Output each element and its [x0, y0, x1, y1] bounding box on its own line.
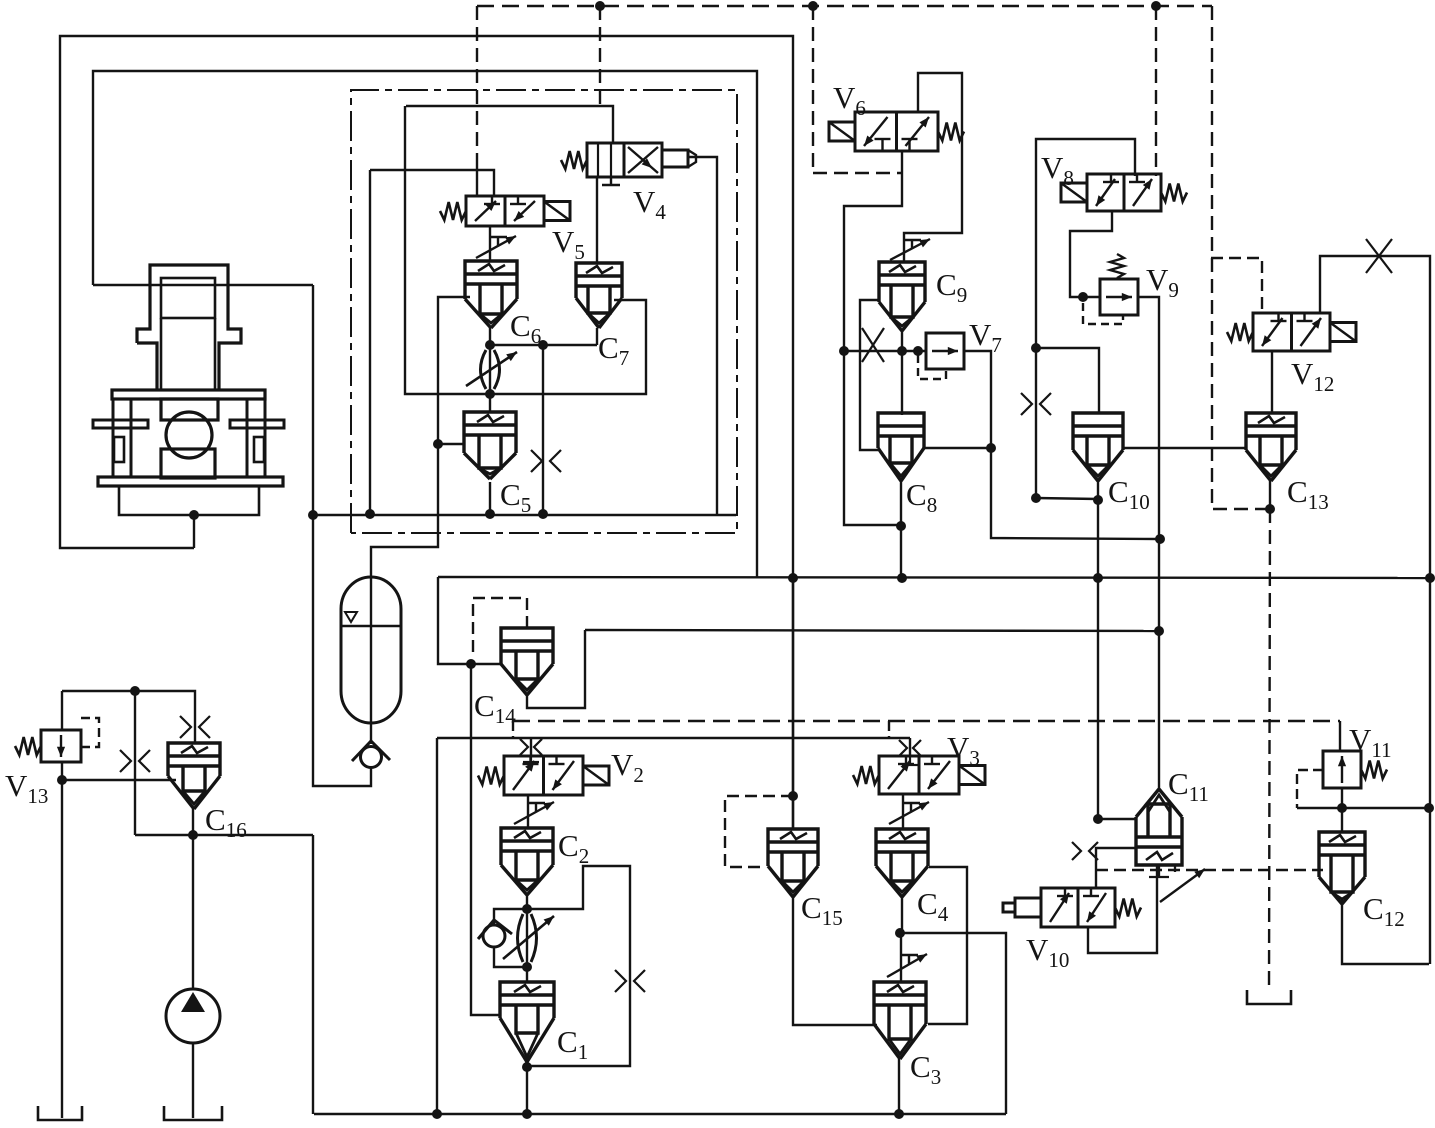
throttle above V2: [520, 739, 528, 755]
junction bus C3: [894, 1109, 904, 1119]
throttle X on y351: [862, 328, 884, 362]
pilot adjust V5-C6: [489, 236, 507, 238]
wire V2 to C2: [527, 795, 529, 828]
wire V9 out: [1138, 297, 1159, 789]
pilot arrow C11: [1160, 869, 1205, 902]
wire V11 top: [1339, 721, 1341, 751]
wire C9 left loop: [860, 300, 880, 450]
wire V8 pilot loop: [1036, 139, 1135, 348]
dashed pilot C15: [725, 796, 793, 867]
dashed pilot into V6 bottom: [813, 172, 902, 174]
cartridge C1: [500, 982, 554, 1018]
wire C14 dot down to C1: [471, 664, 500, 1015]
pilot T-bar V2: [523, 761, 539, 763]
wire V4 to C7: [596, 177, 598, 263]
junction bus at C10 line: [1093, 573, 1103, 583]
wire C6-C7 tie: [490, 344, 597, 346]
junction press base: [189, 510, 199, 520]
wire C9 tip down: [901, 331, 903, 351]
wire V8 bottom: [1070, 211, 1112, 297]
wire V2 top tick: [530, 738, 532, 756]
wire C10 tip down: [1097, 481, 1099, 819]
wire V3 top drop: [909, 738, 911, 757]
pilot adjust V3-C4: [902, 802, 920, 804]
throttle above C16: [180, 716, 191, 738]
dashed pilot right leg: [1212, 6, 1270, 509]
junction bus at right border: [1425, 573, 1435, 583]
dashed stub V2: [512, 721, 514, 738]
junction C1 tip: [522, 1062, 532, 1072]
dashed pilot V13: [81, 718, 99, 747]
pilot adjust C9: [903, 239, 921, 241]
wire C6 left loop: [438, 297, 470, 444]
wire press base stub: [193, 515, 195, 548]
cartridge C12: [1319, 832, 1365, 877]
wire C15 feed: [792, 578, 794, 829]
dashed bus y721: [513, 720, 1340, 722]
cartridge C14: [501, 628, 553, 664]
junction C5 left port: [433, 439, 443, 449]
pilot T-stem V2: [530, 756, 532, 762]
wire C6 to C5: [489, 345, 491, 412]
junction C15 pilot: [788, 791, 798, 801]
junction C10 tip: [1093, 495, 1103, 505]
wire C11 left to V10: [1096, 848, 1136, 888]
wire V4 solenoid to junction row: [689, 157, 717, 514]
wire C5 tip down: [489, 482, 491, 514]
wire C14 tip loop: [527, 630, 585, 708]
junction x1036 y348: [1031, 343, 1041, 353]
junction C11 feed: [1093, 814, 1103, 824]
tank under pump: [164, 1106, 222, 1120]
wire V13 bottom: [61, 762, 63, 1118]
junction below C2: [522, 904, 532, 914]
cartridge C16: [168, 743, 220, 776]
wire press cap line down: [312, 285, 314, 515]
junction C14 left port: [466, 659, 476, 669]
wire V3 to C4: [902, 794, 904, 829]
pilot stub C11: [1174, 865, 1176, 872]
pilot T-bar C11: [1149, 876, 1169, 878]
wire main bus y578: [438, 577, 1430, 578]
pilot T-stem V3: [909, 757, 911, 765]
wire V4 tank stub: [610, 177, 612, 185]
junction bus x437: [432, 1109, 442, 1119]
junction V9 left: [1078, 292, 1088, 302]
throttle X top right: [1366, 239, 1392, 273]
cartridge C4: [876, 829, 928, 866]
junction V13 out: [57, 775, 67, 785]
dashed cross line y870: [1096, 869, 1323, 871]
junction C8 drain tie: [896, 521, 906, 531]
dashed pilot drop to V4 line: [599, 6, 601, 106]
relief valve V9: [1100, 279, 1138, 315]
wire V5 feed solid: [476, 160, 478, 196]
junction row at C5: [485, 509, 495, 519]
wire left box edge x437: [436, 738, 438, 1114]
dash-dot boundary box: [351, 90, 737, 533]
dashed pilot to V12: [1211, 258, 1262, 313]
wire C16 tip down: [192, 809, 194, 835]
wire mid vertical x543: [542, 345, 544, 514]
junction variable throttle: [485, 389, 495, 399]
junction below C4: [895, 928, 905, 938]
press die assembly: [137, 265, 241, 390]
cartridge C11: [1136, 817, 1182, 865]
valve V6: [855, 112, 938, 151]
cartridge C13: [1246, 413, 1296, 450]
wire C11 feed: [1098, 818, 1136, 820]
wire header to pump line: [134, 691, 136, 835]
wire V5 to C6: [489, 226, 491, 261]
wire x1036 to C10 tip: [1036, 498, 1098, 499]
wire row y351: [844, 350, 926, 352]
dashed pilot drop to V6: [812, 6, 814, 173]
cartridge C8: [878, 413, 924, 448]
cartridge C7: [576, 263, 622, 298]
junction x1036 y498: [1031, 493, 1041, 503]
wire V10 out loop: [1088, 865, 1157, 953]
accumulator: [341, 577, 401, 723]
junction V11 out: [1337, 803, 1347, 813]
cartridge C3: [874, 982, 926, 1024]
variable throttle C6-C5: [481, 350, 487, 389]
wire V13 top: [61, 691, 63, 730]
valve V12: [1253, 313, 1330, 351]
junction C9 tip: [897, 346, 907, 356]
junction bus at C15 feed: [788, 573, 798, 583]
junction top bus at V8: [1151, 1, 1161, 11]
junction C6 tip: [485, 340, 495, 350]
relief valve V13: [41, 730, 81, 762]
wire pump up: [192, 835, 194, 989]
wire C4 drain corner: [900, 933, 1006, 1114]
tank bottom right: [1247, 990, 1291, 1004]
wire C13 tip down: [1269, 481, 1271, 509]
wire V6 top loop: [904, 73, 962, 262]
junction bus C1: [522, 1109, 532, 1119]
cartridge C6: [465, 261, 517, 299]
wire feed line y738: [437, 737, 910, 739]
variable throttle at C1: [518, 914, 524, 962]
junction above C1: [522, 962, 532, 972]
pilot T-stem C11: [1158, 865, 1160, 877]
junction x1159 y631: [1154, 626, 1164, 636]
cartridge C2: [501, 828, 553, 865]
wire C4 tip down: [901, 896, 903, 933]
wire C2 tip down: [526, 895, 528, 909]
junction C16 header: [130, 686, 140, 696]
wire C15 tip to C3: [793, 897, 877, 1025]
wire press feed upper loop: [93, 71, 757, 577]
pilot adjust C3: [900, 954, 918, 956]
junction row at press line: [308, 510, 318, 520]
wire inner vertical x370: [369, 170, 371, 514]
junction V7 pilot tap: [913, 346, 923, 356]
wire C9 to C8: [901, 351, 903, 415]
wire C1 right bypass: [527, 866, 630, 1066]
dashed pilot V11: [1297, 770, 1323, 808]
throttle above V3: [899, 740, 907, 756]
junction pump outlet: [188, 830, 198, 840]
wire V6 bottom drain: [844, 151, 902, 525]
wire V7 out: [964, 351, 991, 448]
wire C4 right bypass: [928, 867, 967, 1024]
wire y106 to V4 top: [406, 106, 613, 143]
junction tie x543: [538, 340, 548, 350]
wire press feed horizontal: [93, 284, 313, 286]
wire V12 top loop: [1320, 256, 1430, 964]
check valve at C1: [483, 925, 505, 947]
pilot adjust V2-C2: [527, 802, 545, 804]
wire C1 tip down: [526, 1062, 528, 1114]
wire C5 left port: [438, 443, 464, 445]
wire C6 tip down: [489, 328, 491, 345]
throttle right of C5: [531, 450, 542, 472]
relief valve V7: [926, 333, 964, 369]
wire C8 right port: [924, 447, 991, 449]
wire C14 left port: [471, 663, 502, 665]
wire V13 to C16 funnel: [62, 779, 176, 781]
wire header to bottom bus: [312, 835, 314, 1114]
junction row at x543: [538, 509, 548, 519]
junction C13 drain: [1265, 504, 1275, 514]
valve V5: [466, 196, 544, 226]
throttle on C1 bypass: [615, 970, 626, 992]
wire x1036 down: [1035, 348, 1037, 498]
wire C10-C13 tie: [1123, 447, 1245, 449]
wire y630 line: [585, 630, 1159, 631]
throttle at C11: [1072, 842, 1081, 860]
wire pump header: [135, 834, 313, 836]
junction C8 right: [986, 443, 996, 453]
dashed pilot drop to V5: [476, 6, 478, 160]
wire junction row: [313, 514, 736, 516]
wire bottom bus: [314, 1113, 1006, 1115]
dashed drain line x1269: [1269, 509, 1270, 990]
junction top bus at V6: [808, 1, 818, 11]
cartridge C15: [768, 829, 818, 866]
wire bus corner to C14 dot: [438, 577, 471, 664]
relief valve V11: [1323, 751, 1361, 788]
tank bar under V4: [602, 184, 620, 186]
valve V2: [504, 756, 583, 795]
pilot T-bar V3: [902, 764, 918, 766]
wire x1036 to C10 top: [1036, 348, 1099, 413]
valve V8: [1087, 174, 1161, 211]
junction bus at C8 drain: [897, 573, 907, 583]
junction top bus at V4: [595, 1, 605, 11]
wire C16 top feed: [62, 691, 195, 743]
cartridge C9: [879, 262, 925, 302]
wire pump to tank: [192, 1043, 194, 1118]
check valve under accumulator: [361, 747, 382, 768]
pump: [166, 989, 220, 1043]
wire C5 port to accumulator: [371, 444, 438, 744]
wire V12 to C13: [1271, 351, 1273, 413]
tank under V13: [38, 1106, 82, 1120]
wire C7 tip down: [596, 328, 598, 345]
dashed pilot V9: [1083, 303, 1123, 324]
wire press drain to left border: [60, 36, 793, 829]
dashed stub V3: [888, 721, 890, 738]
wire C4 to C3: [900, 933, 902, 982]
throttle on x1036: [1021, 393, 1032, 415]
junction row at x370: [365, 509, 375, 519]
dashed pilot C14: [473, 598, 527, 658]
wire C3 tip down: [898, 1059, 900, 1114]
wire V7 down to bus539: [991, 448, 1160, 539]
cartridge C5: [464, 412, 516, 453]
wire check branch to C1: [494, 947, 527, 967]
wire C12 tip loop: [1342, 899, 1429, 964]
cartridge C10: [1073, 413, 1123, 450]
junction y808 border: [1424, 803, 1434, 813]
wire inner loop to V5: [370, 170, 494, 196]
valve V4: [587, 143, 662, 177]
junction x1160 y539: [1155, 534, 1165, 544]
wire y808 tie: [1297, 807, 1429, 809]
dashed pilot drop to V8: [1155, 6, 1157, 176]
throttle on x135: [120, 750, 131, 772]
dashed pilot bus top: [477, 5, 1212, 7]
wire check valve out: [313, 515, 371, 786]
wire C2 to C1 direct: [526, 909, 528, 982]
junction y351 x844: [839, 346, 849, 356]
wire check branch C2: [494, 909, 527, 925]
dashed pilot V7: [918, 355, 946, 379]
wire V4 left loop: [405, 106, 646, 394]
wire V11 to C12: [1341, 788, 1343, 832]
wire C8 tip down: [900, 481, 902, 578]
valve V10: [1041, 888, 1115, 927]
valve V3: [879, 756, 959, 794]
